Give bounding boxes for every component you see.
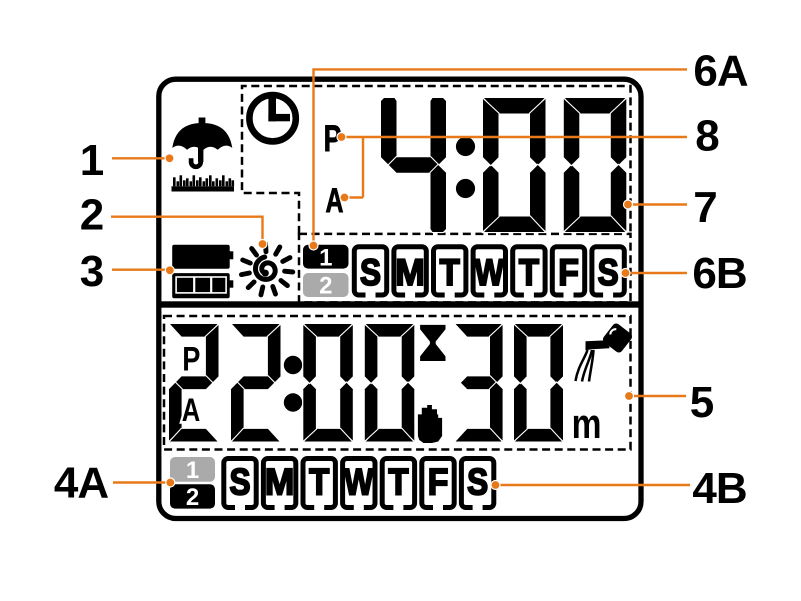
program 1 box (top, active) (303, 245, 349, 269)
bottom day box M1 (263, 459, 295, 513)
svg-text:S: S (229, 462, 250, 503)
dashed zone 6A (clock + 4:00 display) (242, 86, 631, 234)
7-segment digit 0 (run time, ones) (515, 324, 562, 337)
svg-text:A: A (182, 393, 201, 428)
leader line 2 (111, 217, 263, 243)
svg-text:S: S (467, 462, 488, 503)
svg-text:8: 8 (695, 112, 719, 161)
leader line 4B (496, 484, 691, 486)
LCD outer frame (159, 79, 641, 518)
svg-text:S: S (360, 253, 381, 294)
bottom day box W3 (343, 459, 375, 513)
leader line 6A (314, 69, 688, 245)
svg-text:S: S (598, 253, 619, 294)
dashed zone 6B (program day row) (299, 234, 631, 303)
svg-text:A: A (326, 182, 344, 220)
7-segment digit 0 (top, tens of minutes) (484, 98, 545, 114)
svg-text:1: 1 (186, 457, 199, 484)
7-segment digit 0 (start time, tens of minutes) (304, 324, 352, 337)
svg-text:6B: 6B (692, 249, 746, 298)
svg-text:2: 2 (319, 273, 332, 300)
bottom day box F5 (422, 459, 454, 513)
program 2 box (bottom, active) (170, 484, 215, 508)
leader line 3 (112, 269, 170, 271)
top day box F5 (552, 247, 584, 300)
top day box S0 (354, 247, 386, 300)
svg-text:F: F (558, 251, 579, 293)
LCD divider bar (158, 301, 642, 307)
dashed zone 5 (run time display) (164, 316, 631, 450)
7-segment digit 0 (start time, minutes) (366, 324, 414, 337)
svg-text:T: T (440, 252, 461, 293)
top day box S6 (592, 247, 624, 300)
svg-text:m: m (572, 401, 602, 447)
program 2 box (top, inactive) (303, 273, 349, 297)
7-segment digit 3 (run time, tens) (456, 324, 502, 337)
svg-text:W: W (344, 462, 374, 504)
leader line 8 (P/A) (362, 137, 364, 198)
7-segment digit 0 (top, minutes) (565, 98, 626, 114)
hand icon (418, 405, 442, 443)
hourglass icon (420, 325, 445, 361)
bottom day box T4 (382, 459, 414, 513)
program 1 box (bottom, inactive) (170, 457, 215, 482)
svg-text:F: F (428, 461, 449, 503)
colon (top display) (456, 137, 475, 156)
svg-text:1: 1 (80, 136, 104, 185)
svg-text:4B: 4B (692, 464, 746, 513)
top day box T4 (513, 247, 545, 300)
leader line 1 (112, 157, 170, 159)
7-segment digit 2 (start time hours) (232, 324, 280, 337)
svg-text:P: P (182, 340, 200, 379)
svg-text:3: 3 (80, 247, 104, 296)
svg-text:M: M (395, 251, 424, 293)
bottom day box T2 (303, 459, 335, 513)
clock icon (249, 95, 295, 141)
svg-text:T: T (519, 252, 540, 293)
bottom day box S6 (461, 459, 493, 513)
7-segment digit 2 (start time, tens of hours) (170, 324, 218, 337)
top day box M1 (394, 247, 426, 300)
top day box W3 (473, 247, 505, 300)
top day box T2 (434, 247, 466, 300)
battery icon with cells (bottom) (172, 273, 233, 298)
leader line 5 (629, 395, 686, 397)
battery icon full (top) (172, 245, 233, 269)
svg-text:6A: 6A (693, 47, 747, 96)
7-segment digit 4 (current time hours) (381, 98, 397, 165)
svg-text:1: 1 (319, 244, 332, 271)
svg-text:W: W (475, 252, 505, 294)
sun icon (256, 257, 276, 279)
bottom day box S0 (224, 459, 256, 513)
leader line 7 (628, 203, 687, 205)
svg-text:T: T (388, 462, 409, 503)
svg-text:T: T (309, 462, 330, 503)
leader line 4A (113, 481, 170, 483)
leader line 6B (626, 272, 688, 274)
svg-text:4A: 4A (54, 459, 108, 508)
rain delay umbrella icon (172, 118, 235, 192)
svg-text:2: 2 (186, 484, 199, 511)
svg-text:5: 5 (690, 378, 714, 427)
svg-text:7: 7 (693, 183, 717, 232)
svg-text:2: 2 (80, 191, 104, 240)
watering can icon (576, 322, 634, 382)
colon (bottom display) (284, 356, 302, 374)
svg-text:M: M (265, 460, 294, 502)
